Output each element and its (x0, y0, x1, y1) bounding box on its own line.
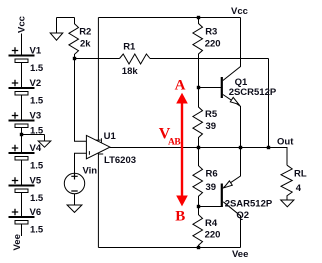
wire (21, 62, 23, 88)
junction R2 R1 (73, 57, 76, 60)
svg-text:220: 220 (205, 38, 221, 49)
svg-text:V3: V3 (30, 110, 42, 121)
junction R4 bottom (197, 246, 200, 249)
svg-text:2SAR512P: 2SAR512P (225, 198, 273, 209)
resistor R2 (69, 18, 79, 59)
svg-text:B: B (175, 209, 185, 225)
svg-text:18k: 18k (122, 66, 139, 77)
svg-text:39: 39 (206, 121, 217, 132)
wire (21, 192, 23, 217)
svg-text:1.5: 1.5 (30, 160, 44, 171)
svg-text:R2: R2 (79, 27, 91, 38)
wire non-inverting input (75, 153, 91, 173)
svg-text:R5: R5 (205, 109, 218, 120)
wire op-amp output (110, 147, 287, 149)
svg-text:V6: V6 (30, 207, 42, 218)
junction R5 R6 output (197, 146, 200, 149)
svg-text:Vcc: Vcc (231, 6, 248, 17)
battery V5 (9, 177, 35, 192)
svg-text:Vcc: Vcc (17, 16, 28, 33)
svg-text:1.5: 1.5 (30, 193, 44, 204)
resistor R6 (193, 148, 203, 207)
ground Vin (67, 205, 82, 212)
wire inverting input (75, 59, 92, 142)
annotation arrow VAB (181, 103, 183, 196)
battery V1 (9, 47, 35, 62)
svg-text:V1: V1 (30, 45, 42, 56)
wire feedback down to Out (268, 59, 270, 148)
svg-text:1.5: 1.5 (30, 95, 44, 106)
wire op-amp V- supply (97, 153, 99, 247)
resistor R5 (193, 88, 203, 148)
wire Vcc top rail (98, 17, 240, 19)
svg-text:39: 39 (206, 182, 217, 193)
wire (21, 160, 23, 186)
battery V6 (9, 209, 35, 224)
svg-text:2k: 2k (80, 38, 91, 49)
junction Out feedback (267, 146, 270, 149)
wire feedback horizontal (75, 58, 269, 60)
svg-text:LT6203: LT6203 (104, 155, 136, 166)
ground R2 top (50, 18, 63, 41)
svg-text:V4: V4 (30, 143, 42, 154)
svg-text:R3: R3 (205, 27, 217, 38)
svg-text:A: A (175, 77, 186, 93)
transistor Q2 (199, 148, 241, 248)
svg-text:RL: RL (294, 169, 307, 180)
wire Vee bottom rail (98, 247, 240, 249)
svg-text:U1: U1 (104, 131, 117, 142)
svg-text:4: 4 (296, 183, 302, 194)
svg-text:220: 220 (205, 230, 221, 241)
battery V3 (9, 112, 35, 127)
battery V4 (9, 145, 35, 160)
wire (21, 127, 23, 153)
svg-text:Q2: Q2 (236, 210, 249, 221)
wire Vin to ground (74, 194, 76, 205)
resistor R1 (120, 54, 151, 64)
svg-text:V2: V2 (30, 78, 42, 89)
wire Out branch (269, 148, 288, 166)
op-amp U1 (86, 135, 110, 158)
voltage source Vin (64, 173, 84, 194)
wire op-amp V+ supply (97, 18, 99, 141)
wire (21, 95, 23, 121)
ground RL (281, 200, 294, 207)
svg-text:V5: V5 (30, 175, 42, 186)
op-amp plus mark (89, 151, 103, 155)
junction Q1 base (197, 86, 200, 89)
svg-text:Vee: Vee (232, 249, 248, 260)
transistor Q1 (199, 18, 241, 148)
resistor R3 (193, 18, 203, 88)
junction Q2 base (197, 205, 200, 208)
svg-text:1.5: 1.5 (30, 224, 44, 235)
wire mid battery to ground (22, 135, 45, 142)
svg-text:R6: R6 (206, 168, 218, 179)
svg-text:2SCR512P: 2SCR512P (229, 87, 277, 98)
svg-text:AB: AB (168, 137, 181, 147)
junction Q1 Q2 emitters (239, 146, 242, 149)
wire battery bottom Vee (21, 224, 23, 236)
svg-text:Vin: Vin (83, 165, 98, 176)
svg-text:Vee: Vee (12, 234, 23, 250)
svg-text:1.5: 1.5 (30, 126, 44, 137)
ground mid battery (38, 141, 51, 147)
resistor R4 (193, 207, 203, 248)
svg-text:1.5: 1.5 (30, 63, 44, 74)
battery V2 (9, 80, 35, 95)
wire battery top Vcc (21, 34, 23, 56)
junction R3 top (197, 16, 200, 19)
svg-text:R4: R4 (205, 218, 218, 229)
wire ground to R2 (57, 17, 75, 19)
svg-text:R1: R1 (123, 41, 136, 52)
resistor RL (281, 165, 292, 200)
junction mid battery (20, 133, 23, 136)
op-amp minus mark (96, 138, 102, 142)
svg-text:Out: Out (277, 136, 294, 147)
